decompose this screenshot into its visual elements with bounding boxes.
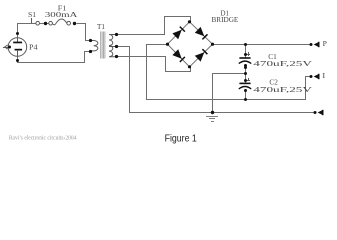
- node - secondary top pin dot: [115, 33, 118, 36]
- transformer T1 secondary center tap stub: [109, 46, 116, 48]
- fuse F1 right contact circle: [67, 21, 71, 25]
- capacitor C1 plus sign: [246, 54, 250, 56]
- node - bridge top vertex dot: [188, 20, 191, 23]
- wire - secondary top tap to bridge top vertex: [117, 17, 191, 35]
- node - P4 top pin dot: [16, 32, 19, 35]
- capacitor C2 bottom curved plate: [239, 87, 251, 90]
- svg-text:470uF,25V: 470uF,25V: [253, 60, 313, 68]
- diode D1b (top vertex to right vertex): [195, 27, 205, 36]
- wire - P4 top lead up to switch level: [18, 24, 37, 39]
- node - primary bottom pin dot: [89, 50, 92, 53]
- svg-text:S1: S1: [28, 11, 36, 19]
- ground symbol: [206, 116, 218, 118]
- node - top rail / C1 junction dot: [244, 43, 247, 46]
- node - ground rail junction dot: [211, 111, 214, 114]
- node - middle rail / caps junction dot: [244, 72, 247, 75]
- wire - secondary bottom tap to bridge bottom vertex: [117, 57, 191, 72]
- node - switch S1 junction dot: [44, 22, 47, 25]
- svg-text:P: P: [323, 40, 327, 48]
- node - fuse F1 output junction dot: [73, 22, 76, 25]
- svg-text:300mA: 300mA: [45, 11, 79, 19]
- terminal I (negative output): [310, 75, 313, 78]
- AC plug P4 top prong stub: [17, 38, 19, 42]
- terminal ground output (bottom right): [314, 111, 317, 114]
- node - C1 lower junction dot: [244, 66, 247, 69]
- wire - switch to fuse segment: [40, 23, 49, 25]
- node - bridge right vertex dot: [211, 43, 214, 46]
- transformer T1 secondary winding: [109, 35, 117, 57]
- wire - bridge minus wire down, along negative line, up to I terminal: [147, 45, 312, 100]
- capacitor C2 top plate: [239, 83, 250, 85]
- wire - P4 left lead: [3, 47, 10, 49]
- wire - fuse out to transformer primary top pin: [77, 24, 91, 41]
- capacitor C1 top plate: [239, 57, 250, 59]
- fuse F1 hump arc: [56, 19, 67, 24]
- wire - capacitor stack lead middle: [245, 64, 247, 83]
- AC plug P4 left lead arrowhead: [5, 45, 8, 49]
- svg-text:Figure 1: Figure 1: [165, 133, 197, 144]
- bridge D1 diamond outline: [168, 22, 213, 67]
- AC plug P4 body: [8, 38, 27, 57]
- AC plug P4 left edge junction dot: [8, 46, 11, 49]
- node - negative line / C2 junction dot: [244, 98, 247, 101]
- AC plug P4 bottom prong stub: [17, 50, 19, 56]
- node - primary top pin dot: [89, 39, 92, 42]
- diode D1d (bottom vertex to right vertex): [195, 52, 205, 61]
- AC plug P4 top prong bar: [13, 42, 22, 44]
- svg-text:Ravi’s electronic circuits›200: Ravi’s electronic circuits›2004: [9, 134, 77, 141]
- node - secondary center pin dot: [115, 45, 118, 48]
- capacitor C2 plus sign: [246, 80, 250, 82]
- svg-text:470uF,25V: 470uF,25V: [253, 86, 313, 94]
- wire - secondary center tap down to ground rail and to bottom-right terminal: [117, 47, 316, 113]
- wire - middle rail from caps midpoint and riser to ground: [213, 74, 246, 113]
- switch S1 left contact circle: [36, 21, 40, 25]
- wire - capacitor stack lead upper: [245, 44, 247, 58]
- transformer T1 core lines: [100, 32, 102, 59]
- switch S1 lever tick: [31, 18, 33, 23]
- wire - capacitor stack lead lower: [245, 89, 247, 99]
- node - C2 bottom pin dot: [244, 89, 247, 92]
- wire - P4 bottom to transformer primary bottom pin: [18, 52, 91, 63]
- node - P4 bottom pin dot: [16, 59, 19, 62]
- svg-text:P4: P4: [29, 43, 38, 51]
- switch S1 right contact circle: [49, 21, 53, 25]
- node - bridge bottom vertex dot: [188, 65, 191, 68]
- diode D1c (left vertex to bottom vertex): [172, 49, 181, 59]
- diode D1a (left vertex to top vertex): [172, 30, 181, 40]
- capacitor C1 bottom curved plate: [239, 61, 251, 64]
- node - bridge left vertex dot: [166, 43, 169, 46]
- node - C2 top pin dot: [244, 79, 247, 82]
- AC plug P4 bottom prong bar: [15, 49, 23, 51]
- wire - positive top rail from bridge right vertex to P terminal: [212, 44, 311, 46]
- node - C1 top pin dot: [244, 53, 247, 56]
- fuse F1 dip arc: [52, 24, 56, 25]
- node - C1 bottom pin dot: [244, 64, 247, 67]
- terminal P (positive output): [310, 43, 313, 46]
- svg-text:BRIDGE: BRIDGE: [212, 16, 239, 24]
- transformer T1 primary winding: [90, 41, 98, 51]
- svg-text:T1: T1: [97, 23, 105, 31]
- node - secondary bottom pin dot: [115, 55, 118, 58]
